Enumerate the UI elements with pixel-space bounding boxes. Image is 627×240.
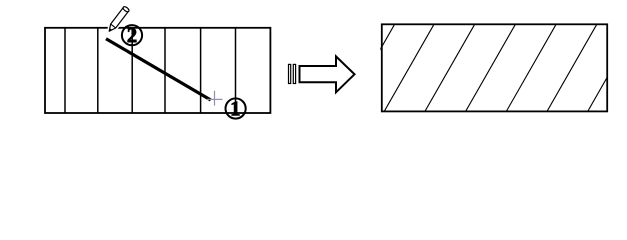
pick cursor cross: [207, 91, 223, 106]
hatch lines: [345, 24, 627, 111]
vertical line 6: [235, 28, 237, 113]
circled number 1: [226, 98, 246, 118]
vertical line 1: [64, 28, 66, 113]
left rectangle: [45, 28, 270, 113]
vertical line 4: [164, 28, 166, 113]
block arrow: [300, 56, 355, 92]
right rectangle: [382, 24, 607, 111]
vertical line 5: [200, 28, 202, 113]
pencil icon: [106, 6, 129, 34]
speed bar 1: [289, 64, 291, 83]
vertical line 3: [131, 28, 133, 113]
thick diagonal rubber-band line: [106, 39, 211, 100]
speed bar 2: [293, 64, 295, 83]
circled number 2: [122, 25, 142, 45]
vertical line 2: [97, 28, 99, 113]
